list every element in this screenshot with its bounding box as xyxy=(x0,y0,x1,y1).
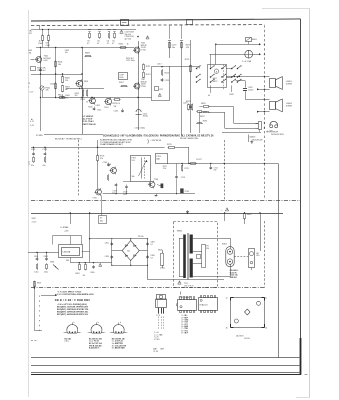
svg-text:10k: 10k xyxy=(58,64,61,66)
svg-text:R223: R223 xyxy=(186,101,191,103)
svg-text:RY1: RY1 xyxy=(160,89,164,91)
svg-text:c: c xyxy=(127,332,128,334)
svg-text:P705: P705 xyxy=(185,191,189,193)
svg-text:e: e xyxy=(64,332,65,334)
svg-text:2b: 2b xyxy=(265,327,267,329)
svg-text:470: 470 xyxy=(186,47,189,49)
svg-text:c: c xyxy=(105,332,106,334)
svg-text:BAL: BAL xyxy=(157,158,161,161)
svg-text:C813: C813 xyxy=(105,256,109,258)
svg-text:IC 801: IC 801 xyxy=(154,339,159,341)
svg-text:AC BOX: AC BOX xyxy=(236,335,244,338)
svg-text:4,7: 4,7 xyxy=(150,258,153,260)
svg-text:2200u: 2200u xyxy=(248,89,253,91)
svg-text:R629: R629 xyxy=(229,94,233,96)
svg-text:LM: LM xyxy=(153,348,156,350)
svg-text:GL1: GL1 xyxy=(127,251,130,253)
svg-text:C603 4n7: C603 4n7 xyxy=(37,70,47,72)
svg-text:IC701 TDA1074: IC701 TDA1074 xyxy=(179,296,191,299)
svg-text:R613: R613 xyxy=(58,94,63,96)
svg-text:R741: R741 xyxy=(167,144,172,146)
svg-text:BU7(AVT): 40R%U/B 4PJ/2EV 1DL: BU7(AVT): 40R%U/B 4PJ/2EV 1DL xyxy=(57,313,89,316)
svg-text:C601: C601 xyxy=(46,45,51,47)
svg-text:R625: R625 xyxy=(201,103,206,105)
svg-text:2/620-84.38 B: 2/620-84.38 B xyxy=(271,134,284,136)
svg-text:2N5.87 E.29: 2N5.87 E.29 xyxy=(184,285,193,287)
svg-text:C613: C613 xyxy=(97,109,101,111)
svg-text:R627: R627 xyxy=(200,116,205,118)
svg-text:T705: T705 xyxy=(92,198,96,200)
svg-text:1k: 1k xyxy=(86,101,88,103)
svg-text:R721: R721 xyxy=(184,168,188,170)
svg-text:1a: 1a xyxy=(226,297,228,299)
svg-text:/ 620*84.3E: / 620*84.3E xyxy=(151,140,162,142)
svg-text:2k2: 2k2 xyxy=(75,95,78,97)
svg-text:10u: 10u xyxy=(172,47,175,49)
svg-text:2*8-B: 2*8-B xyxy=(141,86,146,88)
svg-text:N801: N801 xyxy=(32,218,36,220)
svg-text:47n: 47n xyxy=(214,170,217,172)
svg-text:22k: 22k xyxy=(65,80,68,82)
svg-text:4OHM: 4OHM xyxy=(286,83,292,85)
svg-text:e: e xyxy=(110,332,111,334)
svg-text:e b c: e b c xyxy=(65,341,69,343)
svg-text:TR 250: TR 250 xyxy=(138,236,144,238)
svg-text:T603: T603 xyxy=(84,81,88,83)
svg-text:+26V: +26V xyxy=(64,231,69,233)
svg-text:3 = BASIS TAB: 3 = BASIS TAB xyxy=(112,347,125,350)
svg-text:21,4V: 21,4V xyxy=(32,222,37,224)
svg-text:HOOFDTELEF: HOOFDTELEF xyxy=(266,131,279,133)
svg-text:PLAATDRAAIER.NR AVT: PLAATDRAAIER.NR AVT xyxy=(100,143,123,146)
svg-text:50k: 50k xyxy=(132,176,135,178)
svg-text:U -STAB.: U -STAB. xyxy=(60,226,69,229)
svg-text:P.OUT: P.OUT xyxy=(196,159,202,161)
svg-text:LF 1458/1/3: LF 1458/1/3 xyxy=(83,115,95,118)
svg-text:R803: R803 xyxy=(158,249,162,251)
svg-text:384: 384 xyxy=(66,260,69,262)
svg-text:150: 150 xyxy=(206,248,209,250)
svg-text:1000u: 1000u xyxy=(143,116,148,118)
svg-text:1W: 1W xyxy=(114,106,117,108)
svg-text:[2: [2 xyxy=(28,164,30,166)
svg-text:2/620-84: 2/620-84 xyxy=(244,338,250,340)
svg-text:C701: C701 xyxy=(31,149,36,151)
svg-text:PART TDA1.B: PART TDA1.B xyxy=(83,123,97,126)
svg-text:9 – IN R: 9 – IN R xyxy=(182,332,189,334)
svg-text:R233: R233 xyxy=(203,120,207,122)
svg-text:68: 68 xyxy=(83,275,85,277)
svg-text:22k: 22k xyxy=(163,168,166,170)
svg-text:R 25: TDA 2: R 25: TDA 2 xyxy=(83,120,95,123)
svg-text:47n: 47n xyxy=(31,165,34,167)
svg-text:1b: 1b xyxy=(226,327,228,329)
svg-text:b: b xyxy=(98,322,99,324)
svg-text:R213: R213 xyxy=(146,74,151,76)
svg-text:100u: 100u xyxy=(44,272,48,274)
svg-text:SER 801: SER 801 xyxy=(230,277,237,279)
svg-text:C225: C225 xyxy=(114,111,119,113)
svg-text:C215: C215 xyxy=(165,80,170,82)
svg-text:1k: 1k xyxy=(39,41,41,43)
svg-text:R809: R809 xyxy=(247,214,252,216)
svg-text:1 2 3: 1 2 3 xyxy=(156,315,160,317)
svg-text:b: b xyxy=(74,322,75,324)
svg-text:C213 100p: C213 100p xyxy=(126,60,135,62)
svg-text:100u: 100u xyxy=(34,272,38,274)
svg-text:R221: R221 xyxy=(185,59,190,61)
svg-text:SI801: SI801 xyxy=(222,243,227,245)
svg-text:C223 2200u: C223 2200u xyxy=(135,128,146,130)
svg-text:C803: C803 xyxy=(44,256,48,258)
svg-text:e: e xyxy=(88,332,89,334)
svg-text:DB B / C B3 : F DHB DB3: DB B / C B3 : F DHB DB3 xyxy=(55,298,91,302)
svg-text:R807: R807 xyxy=(37,283,41,285)
svg-text:C811: C811 xyxy=(105,242,109,244)
svg-text:2*7-B: 2*7-B xyxy=(141,49,146,51)
svg-text:T701: T701 xyxy=(107,164,111,166)
svg-text:21,4V: 21,4V xyxy=(153,351,158,353)
svg-text:47k: 47k xyxy=(46,90,49,92)
svg-text:801: 801 xyxy=(100,221,103,223)
svg-text:AL 2*15 W: AL 2*15 W xyxy=(83,118,93,121)
svg-text:2 x 6 V BA: 2 x 6 V BA xyxy=(242,60,252,63)
svg-text:R225 0,5: R225 0,5 xyxy=(112,103,120,105)
svg-text:4,7: 4,7 xyxy=(150,244,153,246)
svg-text:R611: R611 xyxy=(81,99,85,101)
svg-text:C805: C805 xyxy=(90,272,94,274)
svg-text:4p7 1k0: 4p7 1k0 xyxy=(125,39,132,41)
svg-text:C703: C703 xyxy=(42,149,47,151)
svg-text:SI601: SI601 xyxy=(252,39,257,41)
svg-text:b: b xyxy=(120,322,121,324)
svg-text:1k: 1k xyxy=(127,44,129,46)
svg-text:RD.NR. SEMICOND.: RD.NR. SEMICOND. xyxy=(180,138,199,140)
svg-text:T703: T703 xyxy=(154,179,158,181)
svg-text:C217: C217 xyxy=(157,63,162,65)
svg-text:47n: 47n xyxy=(42,165,45,167)
svg-text:2u2: 2u2 xyxy=(123,194,126,196)
svg-text:R211: R211 xyxy=(146,66,151,68)
svg-text:C713: C713 xyxy=(181,177,185,179)
svg-text:0,6V: 0,6V xyxy=(44,60,49,62)
svg-text:B:420-800 C: B:420-800 C xyxy=(89,347,100,350)
svg-text:VOL: VOL xyxy=(132,160,136,162)
svg-text:R215: R215 xyxy=(165,73,170,75)
svg-text:2a: 2a xyxy=(265,297,267,299)
svg-text:47n: 47n xyxy=(46,43,49,45)
svg-text:47k: 47k xyxy=(100,158,103,160)
svg-text:1 /U / CONT.U/ FUELL/2000 ADRS: 1 /U / CONT.U/ FUELL/2000 ADRSL.KOH xyxy=(57,293,94,296)
svg-text:LED: LED xyxy=(120,77,124,79)
svg-text:BU603: BU603 xyxy=(250,137,256,139)
svg-text:LM317A: LM317A xyxy=(63,251,71,254)
svg-text:ST.NFV: ST.NFV xyxy=(36,135,44,137)
svg-text:TDA1524: TDA1524 xyxy=(199,304,207,307)
svg-text:10u: 10u xyxy=(65,97,68,99)
svg-text:R601: R601 xyxy=(39,43,44,45)
svg-text:S801: S801 xyxy=(50,261,54,263)
svg-text:10u: 10u xyxy=(65,52,68,54)
svg-text:R801: R801 xyxy=(75,273,79,275)
svg-text:4OHM: 4OHM xyxy=(286,106,292,108)
svg-text:SCHAKELBI.D / NF VLAKDRADEN /: SCHAKELBI.D / NF VLAKDRADEN / TALGEN EN … xyxy=(103,134,214,137)
svg-text:TR801: TR801 xyxy=(177,231,183,233)
svg-text:C604: C604 xyxy=(50,83,55,85)
svg-text:801: 801 xyxy=(256,255,259,257)
